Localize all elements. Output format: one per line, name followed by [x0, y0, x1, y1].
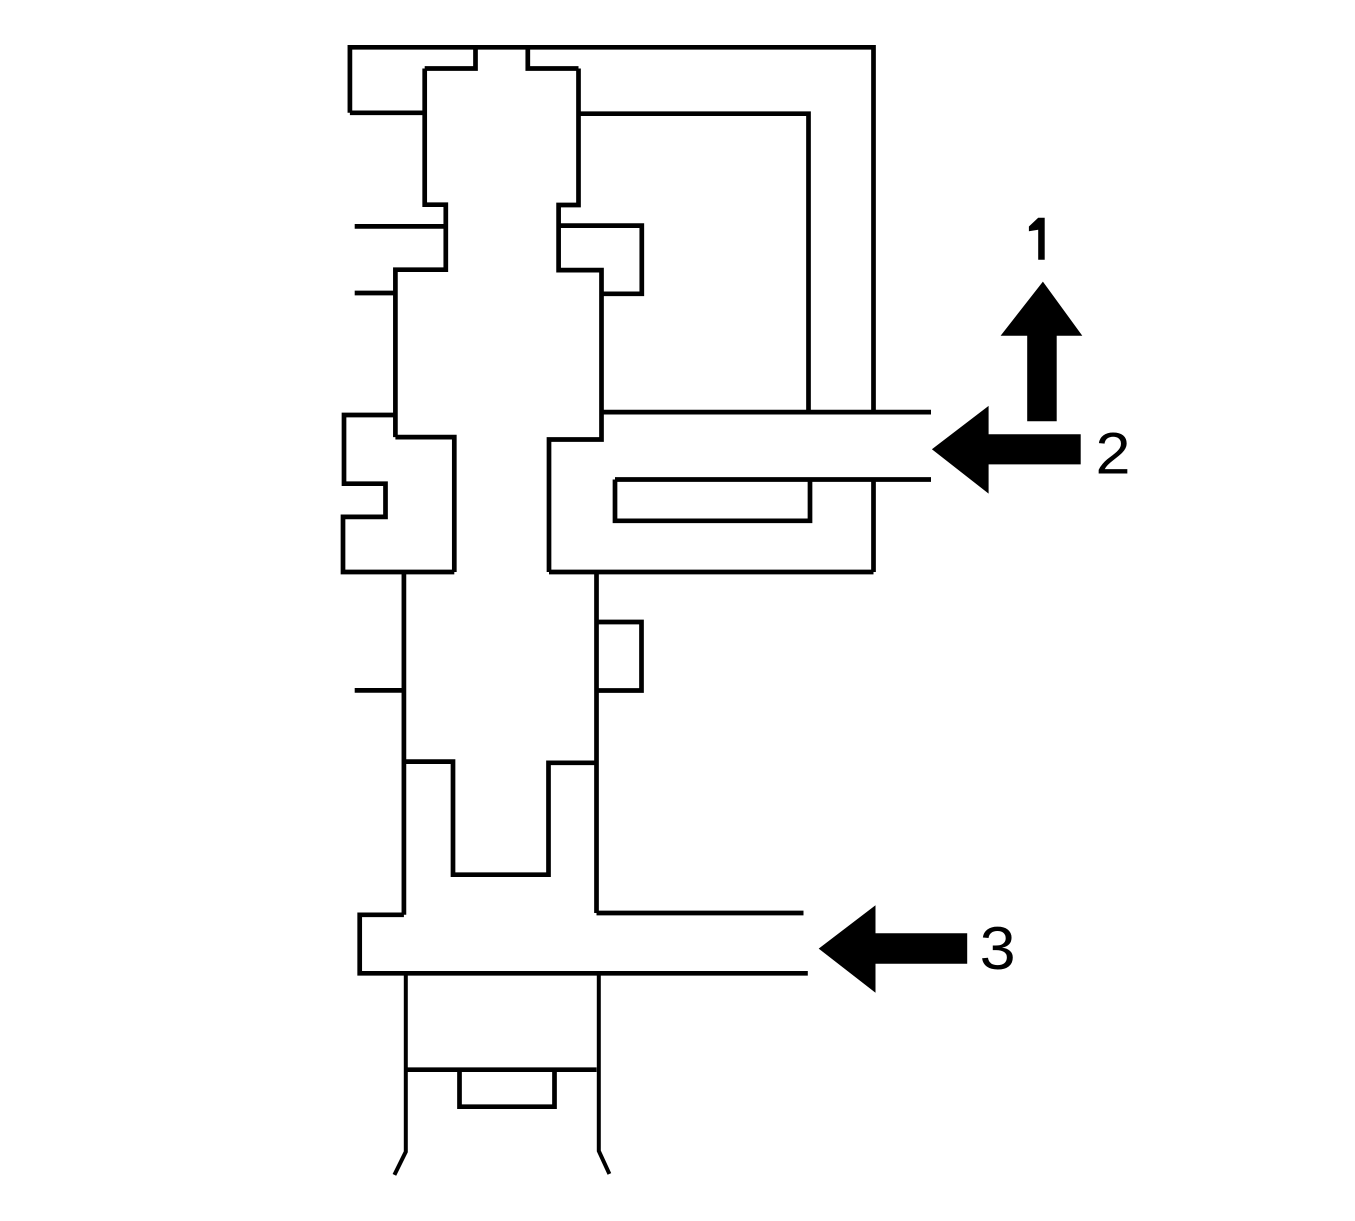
wire shaft left wall upper with steps	[395, 69, 445, 438]
wire left stub line 3	[355, 688, 404, 693]
arrow 2 left	[932, 406, 1081, 494]
wire left stub line 2	[355, 291, 396, 296]
arrow 3 left	[819, 905, 968, 992]
wire lower-right small rectangle	[597, 622, 642, 691]
wire slot below channel	[615, 480, 810, 521]
wire top-left box bottom	[350, 110, 425, 115]
wire chamber bottom right part	[549, 570, 874, 575]
svg-text:3: 3	[980, 915, 1016, 982]
wire tail small rectangle	[460, 1070, 555, 1107]
wire neck left	[425, 47, 476, 68]
wire channel top	[602, 410, 932, 415]
wire chamber top edge left part	[395, 437, 454, 572]
label 1	[1029, 218, 1045, 260]
wire shaft right wall with steps down to chamber	[549, 69, 602, 573]
wire channel bottom	[615, 477, 931, 482]
wire tail right with slant foot	[599, 973, 610, 1174]
wire inner top-right L	[579, 114, 809, 412]
wire neck right	[528, 47, 579, 68]
wire lower bore left wall	[402, 572, 407, 915]
wire bore narrowing and cup bottom	[404, 762, 597, 875]
wire upper small rectangle right of shaft	[559, 226, 642, 294]
arrow 1 up	[1001, 282, 1083, 422]
wire chamber right outer wall below channel	[871, 480, 876, 573]
wire left flange outline	[343, 415, 454, 572]
wire tail left with slant foot	[394, 973, 405, 1175]
wire tail inner horizontal	[406, 1067, 597, 1072]
wire flange right top	[597, 911, 804, 916]
wire left stub line 1	[355, 224, 446, 229]
wire flange left and bottom	[360, 915, 808, 974]
wire outer top-left box left wall, top line, right outer wall	[350, 47, 874, 411]
svg-text:2: 2	[1096, 422, 1131, 487]
wire lower bore right wall	[594, 572, 599, 913]
